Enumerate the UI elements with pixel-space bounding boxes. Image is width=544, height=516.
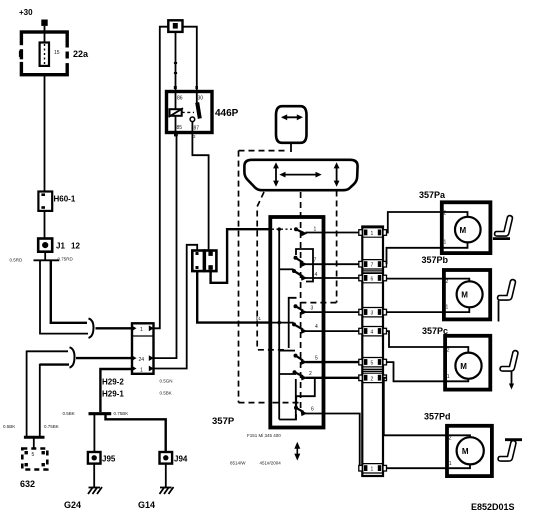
- wire J95 to G24: [93, 464, 95, 487]
- wire lower-left thick branch: [40, 363, 69, 365]
- seat icon b: [498, 280, 516, 322]
- svg-text:2: 2: [309, 371, 312, 377]
- wire strip to motor a pin1: [387, 212, 442, 233]
- svg-text:451#/2004: 451#/2004: [260, 461, 282, 466]
- dashed enclosure bottom-left: [239, 402, 271, 404]
- wire J1 to splice: [44, 252, 46, 260]
- svg-text:J94: J94: [174, 455, 188, 464]
- svg-text:2: 2: [446, 279, 449, 285]
- dashed link panel to switch pack: [257, 192, 288, 350]
- svg-text:30: 30: [198, 96, 204, 102]
- svg-text:6: 6: [371, 277, 374, 283]
- node +30 terminal: [41, 20, 47, 26]
- wire out row5: [306, 330, 363, 332]
- svg-text:7: 7: [314, 258, 317, 264]
- interior: stub to S7: [279, 373, 296, 375]
- svg-text:1: 1: [449, 461, 452, 467]
- svg-text:357Pc: 357Pc: [422, 326, 448, 336]
- svg-text:357Pa: 357Pa: [419, 190, 446, 200]
- inline connector 2-pin: [192, 251, 216, 272]
- svg-text:8514/W: 8514/W: [230, 461, 246, 466]
- interior: dotted feed: [272, 228, 296, 230]
- wire fuse to H60-1: [44, 74, 46, 192]
- svg-text:86: 86: [177, 96, 183, 102]
- ground splice bar: [89, 412, 112, 415]
- wire strip to motor b pin1: [387, 278, 444, 280]
- connector H60-1: [38, 192, 52, 211]
- svg-text:G24: G24: [64, 500, 81, 510]
- fuse box 22a: [18, 32, 71, 75]
- dashed enclosure top: [239, 150, 289, 152]
- wire strip to motor c pin2: [387, 362, 445, 381]
- interior: link S7 to S8: [295, 379, 297, 420]
- svg-text:0.5GN: 0.5GN: [160, 379, 173, 384]
- svg-text:b1: b1: [256, 316, 262, 321]
- wire J94 to G14: [165, 464, 167, 487]
- strip pin row 7: [359, 373, 387, 382]
- switch S5: [292, 322, 308, 333]
- svg-text:0.5RD: 0.5RD: [10, 258, 24, 263]
- svg-text:H29-1: H29-1: [102, 390, 124, 399]
- switch S8: [294, 406, 308, 416]
- wire down-left to 632 (right): [39, 364, 41, 436]
- connector half H10 upper: [89, 318, 94, 338]
- svg-text:3: 3: [371, 311, 374, 317]
- svg-text:J95: J95: [102, 455, 116, 464]
- svg-text:632: 632: [20, 479, 35, 489]
- interior: cross link pair2: [289, 298, 297, 348]
- strip pin row 8: [359, 464, 387, 473]
- switch S6: [294, 354, 308, 365]
- svg-text:357Pd: 357Pd: [424, 412, 451, 422]
- switch S7: [293, 370, 308, 380]
- svg-text:0.5BK: 0.5BK: [160, 391, 172, 396]
- strip pin row 4: [359, 308, 387, 317]
- svg-text:87: 87: [194, 126, 200, 132]
- connector strip: [362, 227, 383, 477]
- svg-text:1: 1: [140, 327, 143, 333]
- wire out row4: [306, 311, 363, 313]
- strip pin row 3: [359, 273, 387, 282]
- svg-text:446P: 446P: [215, 108, 239, 119]
- switch S2: [294, 256, 308, 267]
- seat switch knob: [276, 106, 307, 152]
- svg-text:M: M: [461, 291, 468, 300]
- svg-text:1: 1: [444, 240, 447, 246]
- wire H60-1 to J1: [44, 211, 46, 239]
- connector J94: [160, 452, 173, 464]
- strip pin row 1: [359, 228, 387, 237]
- switch S1: [294, 227, 308, 236]
- wire splice to J95: [93, 414, 95, 452]
- wire down-left to 632 (left): [26, 351, 28, 437]
- wire splice to J94: [106, 414, 166, 452]
- svg-text:F151 Mi 345 400: F151 Mi 345 400: [247, 433, 281, 438]
- splice bar 632 feed: [24, 436, 45, 439]
- svg-text:357P: 357P: [212, 416, 235, 427]
- dashed link inside box: [273, 402, 300, 404]
- wire relay 87 to inline connector: [192, 133, 208, 251]
- dashed mechanical link: [300, 192, 302, 412]
- wire junction to relay 30: [183, 27, 197, 92]
- wire strip to motor d pin1: [384, 378, 447, 436]
- wire junction to relay 86: [175, 32, 177, 92]
- wire H29 pin3 to ground splice: [100, 369, 132, 412]
- arrow updown below box: [294, 442, 300, 461]
- connector half H10 lower: [70, 347, 75, 367]
- wire fuse feed: [44, 26, 46, 42]
- seat switch panel: [244, 160, 357, 190]
- connector J1 pin 12: [38, 239, 52, 252]
- svg-text:4: 4: [315, 324, 318, 330]
- wire out row8: [306, 414, 363, 469]
- svg-text:24: 24: [139, 357, 145, 363]
- motor 357Pa: [442, 202, 491, 253]
- strip pin row 5: [359, 327, 387, 336]
- svg-text:4: 4: [371, 330, 374, 336]
- pin stub marks: [174, 133, 178, 136]
- svg-text:0.75BK: 0.75BK: [44, 424, 59, 429]
- seat icon d: [498, 440, 522, 461]
- svg-text:1: 1: [371, 231, 374, 237]
- svg-text:15: 15: [54, 50, 60, 56]
- switch S3: [292, 269, 308, 281]
- wire to H29 pin 1: [96, 327, 133, 329]
- seat icon a: [493, 216, 513, 239]
- switch S4: [294, 304, 308, 315]
- dashed enclosure left: [238, 151, 240, 403]
- interior: bus junctions: [277, 227, 281, 231]
- svg-text:G14: G14: [138, 500, 155, 510]
- interior: bus bottom to S8: [279, 414, 296, 420]
- wire strip to motor d pin2: [387, 467, 447, 469]
- svg-text:0.5BK: 0.5BK: [63, 411, 75, 416]
- svg-text:5: 5: [315, 356, 318, 362]
- connector J95: [88, 452, 101, 464]
- wire out row3: [306, 277, 363, 279]
- wire out row6: [306, 361, 363, 363]
- wire H29 pin1 to top junction: [154, 27, 169, 329]
- dashed enclosure bottom-right: [300, 302, 336, 304]
- svg-text:0.75RD: 0.75RD: [58, 257, 74, 262]
- wire J1 left branch: [40, 261, 88, 334]
- svg-text:M: M: [460, 362, 467, 371]
- interior: stub to S6: [279, 350, 295, 352]
- strip pin row 2: [359, 260, 387, 269]
- fuse element: [40, 43, 49, 66]
- wire H29 pin2 to relay pin 85: [154, 133, 177, 359]
- H29 connector block: [132, 323, 154, 374]
- svg-text:85: 85: [177, 125, 183, 131]
- splice tick: [34, 259, 60, 261]
- svg-text:H60-1: H60-1: [54, 195, 76, 204]
- svg-text:1: 1: [140, 368, 143, 374]
- wire connector to 357P feed1: [211, 229, 270, 283]
- ground unit 632: [22, 449, 47, 470]
- svg-text:1: 1: [447, 374, 450, 380]
- svg-text:2: 2: [371, 376, 374, 382]
- motor 357Pd: [447, 426, 492, 476]
- svg-text:+30: +30: [19, 8, 33, 17]
- svg-text:357Pb: 357Pb: [422, 255, 449, 265]
- dashed enclosure right: [336, 191, 338, 303]
- svg-text:3: 3: [311, 306, 314, 312]
- svg-text:M: M: [460, 226, 467, 235]
- interior: supply bus: [278, 229, 280, 419]
- strip pin row 6: [359, 358, 387, 367]
- wire H29 pin3 to inline connector: [154, 245, 198, 369]
- svg-text:7: 7: [371, 263, 374, 269]
- svg-text:1: 1: [371, 467, 374, 473]
- motor 357Pb: [444, 270, 490, 319]
- wire strip to motor a pin2: [387, 248, 442, 264]
- wire connector to 357P feed2: [197, 272, 270, 323]
- control unit 357P box: [270, 217, 323, 428]
- svg-text:2: 2: [449, 436, 452, 442]
- wire out row7: [306, 377, 363, 379]
- wire to H29 pin 2: [76, 357, 132, 359]
- interior: feed2 to S5: [272, 322, 294, 324]
- wire out row2: [306, 263, 363, 265]
- ground G24: [88, 487, 102, 494]
- svg-text:6: 6: [311, 407, 314, 413]
- wire out row1: [306, 232, 363, 234]
- interior: cross link pair4: [296, 379, 315, 407]
- interior: stub to S3: [279, 268, 293, 270]
- interior: cross link pair1: [296, 249, 313, 282]
- svg-text:M: M: [462, 447, 469, 456]
- ground G14: [160, 487, 174, 494]
- svg-text:J1: J1: [56, 242, 65, 251]
- junction connector top: [168, 20, 182, 32]
- wire J1 right branch: [51, 261, 87, 323]
- relay 446P: [167, 92, 213, 133]
- svg-text:H29-2: H29-2: [102, 378, 124, 387]
- svg-text:5: 5: [32, 452, 35, 458]
- svg-text:5: 5: [371, 361, 374, 367]
- wire splice to 632: [33, 437, 35, 448]
- wire strip to motor b pin2: [387, 311, 444, 313]
- seat icon c: [500, 351, 518, 390]
- svg-text:1: 1: [446, 305, 449, 311]
- wire lower-left thin branch: [27, 350, 68, 352]
- motor 357Pc: [445, 336, 490, 390]
- svg-text:0.5BK: 0.5BK: [3, 424, 15, 429]
- svg-text:22a: 22a: [73, 49, 89, 59]
- svg-text:E852D01S: E852D01S: [471, 502, 515, 512]
- svg-text:12: 12: [71, 242, 80, 251]
- svg-text:0.75BK: 0.75BK: [114, 411, 129, 416]
- wire strip to motor c pin1: [387, 331, 445, 347]
- svg-text:2: 2: [447, 348, 450, 354]
